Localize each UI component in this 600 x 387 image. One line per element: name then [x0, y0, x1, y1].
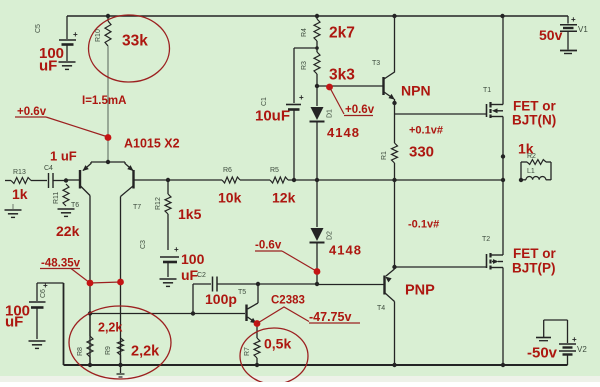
- svg-text:FET or: FET or: [513, 99, 556, 114]
- svg-text:T7: T7: [133, 204, 141, 211]
- svg-text:C2383: C2383: [271, 295, 305, 307]
- svg-text:+: +: [299, 93, 304, 102]
- svg-text:4148: 4148: [329, 243, 362, 258]
- svg-text:1 uF: 1 uF: [50, 149, 77, 164]
- svg-text:10k: 10k: [218, 190, 242, 206]
- svg-text:4148: 4148: [327, 125, 360, 140]
- svg-text:L1: L1: [527, 168, 535, 175]
- svg-text:+0.6v: +0.6v: [345, 104, 375, 116]
- svg-text:T1: T1: [483, 87, 491, 94]
- svg-text:2k7: 2k7: [329, 25, 355, 42]
- svg-text:PNP: PNP: [405, 283, 435, 299]
- svg-text:C2: C2: [197, 272, 206, 279]
- svg-text:1k: 1k: [12, 186, 28, 202]
- svg-text:3k3: 3k3: [329, 67, 355, 84]
- svg-text:uF: uF: [181, 267, 199, 283]
- svg-text:T3: T3: [372, 60, 380, 67]
- svg-text:C6: C6: [40, 289, 47, 298]
- svg-text:uF: uF: [39, 58, 57, 75]
- svg-text:R2: R2: [527, 153, 536, 160]
- svg-text:R1: R1: [381, 151, 388, 160]
- svg-text:R6: R6: [223, 167, 232, 174]
- svg-text:0,5k: 0,5k: [264, 336, 291, 352]
- svg-text:+: +: [571, 15, 576, 24]
- svg-text:2,2k: 2,2k: [131, 344, 160, 360]
- svg-text:C5: C5: [35, 24, 42, 33]
- svg-text:R4: R4: [301, 28, 308, 37]
- svg-text:22k: 22k: [56, 223, 80, 239]
- svg-text:+: +: [572, 335, 577, 344]
- svg-text:C3: C3: [140, 240, 147, 249]
- svg-text:10uF: 10uF: [255, 108, 290, 125]
- svg-text:-47.75v: -47.75v: [309, 310, 351, 324]
- svg-text:2,2k: 2,2k: [98, 321, 122, 335]
- svg-text:C1: C1: [261, 97, 268, 106]
- svg-text:+: +: [73, 30, 78, 39]
- svg-text:C4: C4: [44, 165, 53, 172]
- svg-text:I=1.5mA: I=1.5mA: [82, 95, 126, 107]
- svg-text:-0.1v#: -0.1v#: [408, 219, 439, 231]
- svg-text:-48.35v: -48.35v: [41, 258, 81, 270]
- svg-text:1k5: 1k5: [178, 206, 202, 222]
- svg-text:-50v: -50v: [527, 345, 558, 362]
- svg-text:R11: R11: [53, 192, 60, 204]
- svg-text:BJT(P): BJT(P): [512, 261, 556, 276]
- svg-text:+: +: [174, 245, 179, 254]
- svg-text:BJT(N): BJT(N): [512, 113, 556, 128]
- svg-text:100: 100: [181, 251, 205, 267]
- svg-text:R9: R9: [105, 346, 112, 355]
- svg-text:FET or: FET or: [513, 246, 556, 261]
- svg-text:V1: V1: [578, 25, 588, 34]
- svg-text:D1: D1: [327, 109, 334, 118]
- svg-text:T2: T2: [482, 236, 490, 243]
- svg-text:NPN: NPN: [401, 83, 431, 99]
- svg-text:+: +: [43, 281, 48, 290]
- svg-text:R7: R7: [244, 347, 251, 356]
- svg-text:R3: R3: [301, 61, 308, 70]
- svg-text:100p: 100p: [205, 291, 237, 307]
- svg-text:+0.1v#: +0.1v#: [409, 125, 443, 137]
- svg-text:uF: uF: [5, 314, 23, 331]
- svg-text:D2: D2: [327, 231, 334, 240]
- svg-text:33k: 33k: [122, 33, 148, 50]
- svg-text:R8: R8: [77, 347, 84, 356]
- svg-text:T6: T6: [71, 202, 79, 209]
- svg-text:50v: 50v: [539, 27, 563, 43]
- svg-text:V2: V2: [577, 345, 587, 354]
- svg-text:R10: R10: [95, 29, 102, 42]
- svg-text:R5: R5: [270, 167, 279, 174]
- svg-text:-0.6v: -0.6v: [255, 240, 282, 252]
- svg-text:A1015 X2: A1015 X2: [124, 137, 180, 151]
- svg-text:R12: R12: [155, 197, 162, 210]
- svg-text:12k: 12k: [272, 190, 296, 206]
- svg-text:R13: R13: [13, 169, 26, 176]
- svg-text:+0.6v: +0.6v: [17, 106, 47, 118]
- svg-text:T4: T4: [377, 305, 385, 312]
- svg-text:330: 330: [409, 144, 434, 161]
- svg-text:T5: T5: [238, 289, 246, 296]
